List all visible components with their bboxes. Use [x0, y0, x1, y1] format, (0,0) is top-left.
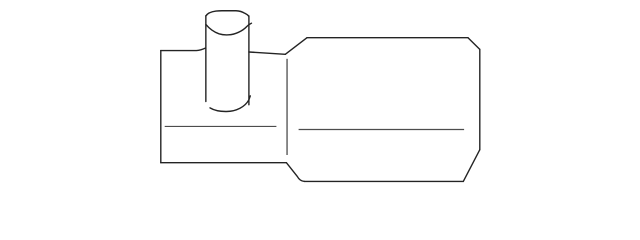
flange/body parting line [286, 59, 288, 155]
body right edge [479, 49, 481, 149]
body top edge [307, 37, 468, 39]
flange bottom edge [161, 162, 287, 164]
cylinder port top rim inner arc [206, 23, 252, 35]
flange left edge [160, 51, 162, 163]
body bottom step curve [286, 163, 304, 182]
cylinder port top silhouette arc [206, 11, 249, 16]
cylinder port right side [248, 16, 250, 105]
flange top edge left of port [161, 48, 206, 51]
body face groove line [299, 129, 465, 131]
body top-left diagonal [285, 38, 307, 55]
body bottom edge [305, 180, 464, 182]
body bottom-right chamfer [463, 150, 480, 182]
flange top edge right of port [249, 52, 285, 54]
body top-right chamfer [468, 38, 480, 50]
cylinder port left side [205, 16, 207, 102]
flange face groove line [165, 125, 277, 127]
cylinder port bottom rim arc [210, 96, 250, 112]
